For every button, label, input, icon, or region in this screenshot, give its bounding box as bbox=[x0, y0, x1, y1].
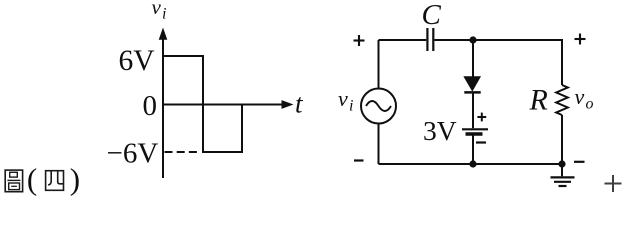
wire top right corner to resistor bbox=[561, 40, 563, 85]
label - (output, bottom right) bbox=[574, 161, 585, 163]
caption glyph 四 bbox=[46, 171, 64, 191]
axis t (horizontal axis of waveform) bbox=[163, 100, 294, 109]
label - (input, bottom left) bbox=[354, 159, 364, 161]
svg-text:v: v bbox=[338, 86, 348, 111]
svg-text:C: C bbox=[422, 0, 442, 31]
label + (output, top right) bbox=[575, 34, 586, 45]
wire node A to diode anode bbox=[472, 40, 474, 78]
svg-text:0: 0 bbox=[143, 90, 158, 122]
source v_i (AC source circle) bbox=[361, 89, 396, 124]
svg-text:−6V: −6V bbox=[107, 137, 159, 169]
label + (stray, bottom right) bbox=[605, 175, 622, 192]
label v_i (source) bbox=[338, 86, 353, 115]
node C (bottom right junction dot) bbox=[558, 160, 565, 167]
svg-text:v: v bbox=[152, 0, 162, 19]
wire bottom rail bbox=[379, 163, 563, 165]
axis v (vertical axis of waveform) bbox=[159, 28, 168, 179]
svg-text:(: ( bbox=[27, 161, 37, 196]
svg-text:t: t bbox=[295, 89, 304, 119]
capacitor C bbox=[427, 28, 433, 51]
svg-text:3V: 3V bbox=[423, 115, 457, 146]
svg-text:R: R bbox=[529, 84, 548, 117]
wire source bottom lead bbox=[378, 124, 380, 165]
waveform square wave trace bbox=[163, 56, 242, 152]
resistor R bbox=[556, 85, 568, 115]
svg-text:i: i bbox=[162, 6, 166, 23]
caption glyph 圖 bbox=[5, 170, 22, 192]
wire diode cathode to battery bbox=[472, 92, 474, 128]
svg-text:i: i bbox=[349, 98, 353, 115]
label v_i (waveform axis) bbox=[152, 0, 167, 23]
ground bbox=[551, 164, 575, 186]
wire battery to bottom rail bbox=[472, 135, 474, 164]
node B (bottom middle junction dot) bbox=[469, 160, 476, 167]
label v_o bbox=[575, 84, 594, 113]
wire source top lead bbox=[378, 40, 380, 89]
svg-text:o: o bbox=[586, 96, 594, 113]
svg-text:6V: 6V bbox=[119, 45, 155, 77]
sine symbol inside source bbox=[366, 101, 391, 111]
svg-text:): ) bbox=[70, 161, 80, 196]
battery 3V negative plate (short thick) bbox=[466, 132, 483, 136]
battery 3V positive plate (long) bbox=[462, 128, 488, 130]
wire top rail left (source to capacitor) bbox=[379, 39, 427, 41]
diode D1 (cathode down) bbox=[464, 77, 481, 93]
wire capacitor to node A bbox=[434, 39, 473, 41]
label + (battery positive) bbox=[477, 113, 486, 122]
dashed line -6V level bbox=[165, 151, 202, 153]
node A (top junction dot) bbox=[469, 36, 476, 43]
label + (input, top left) bbox=[354, 35, 365, 46]
wire node A to top right corner bbox=[473, 39, 563, 41]
label - (battery negative) bbox=[476, 141, 486, 143]
wire resistor to bottom rail bbox=[561, 115, 563, 164]
svg-text:v: v bbox=[575, 84, 585, 109]
